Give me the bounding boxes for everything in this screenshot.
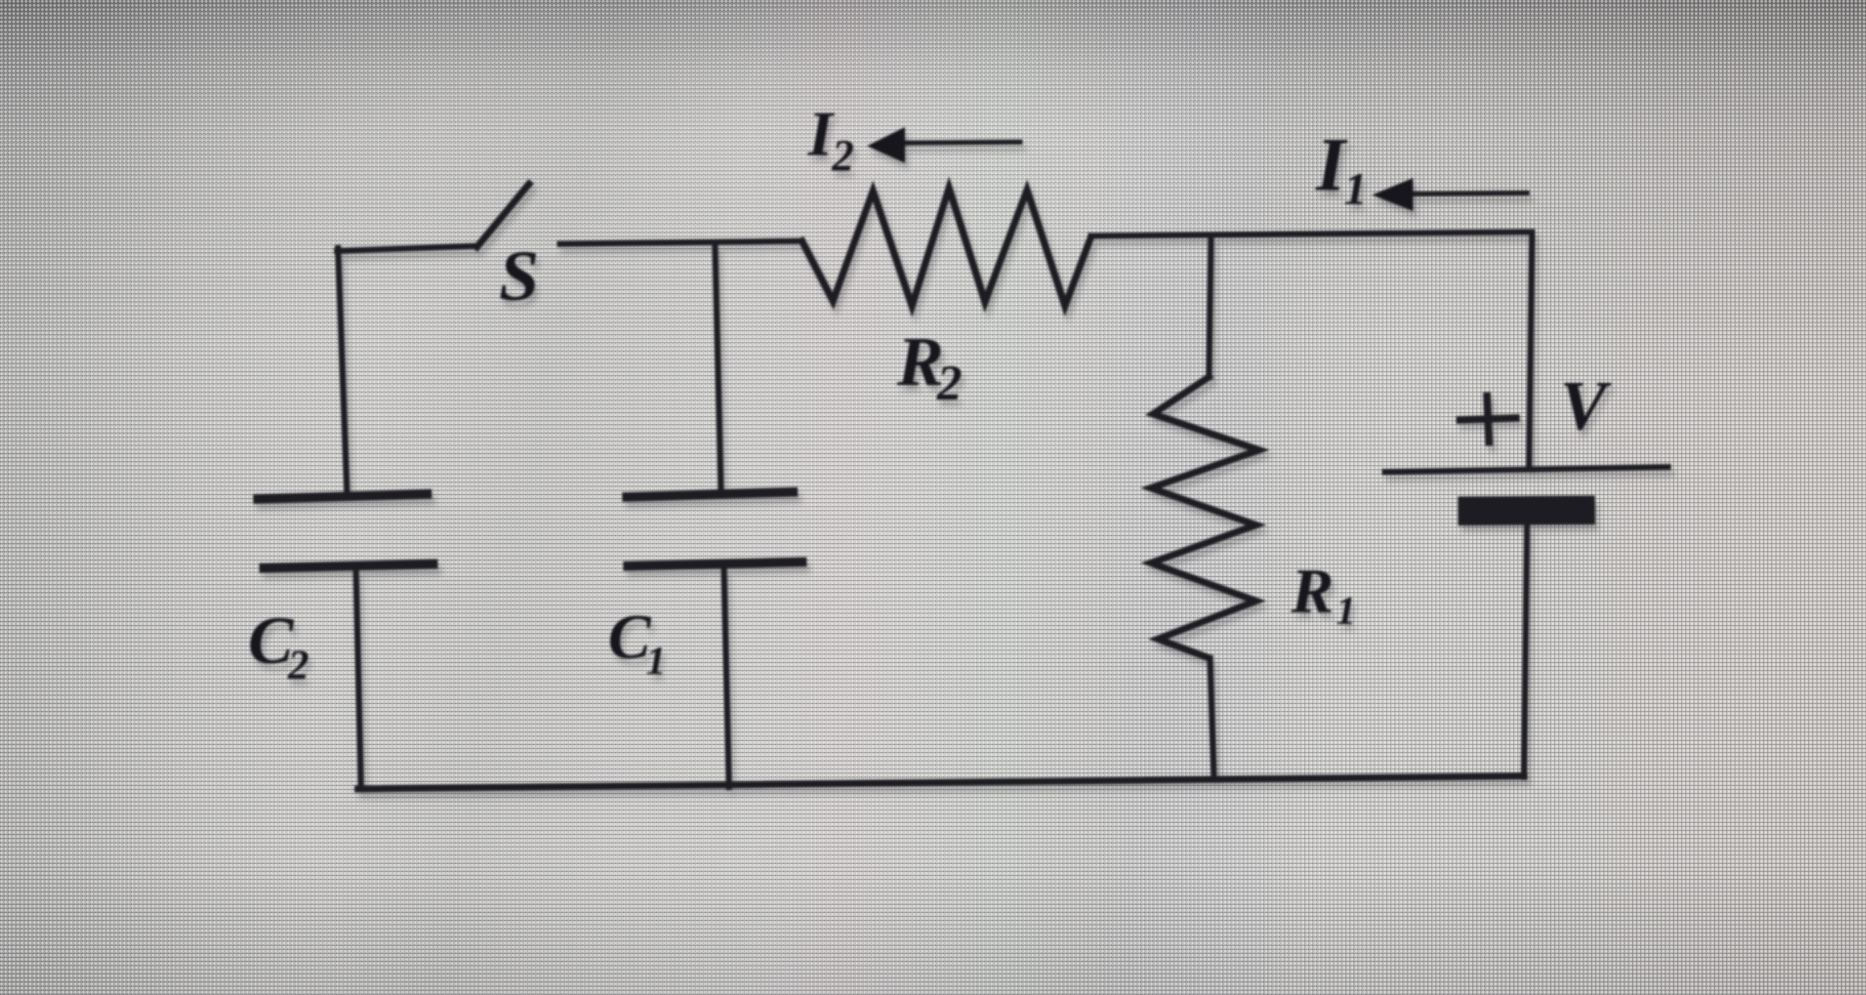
current arrow I1 head bbox=[1372, 178, 1413, 211]
soft photo shadow copy of circuit bbox=[252, 105, 1672, 796]
capacitor C2 bottom plate bbox=[264, 564, 433, 568]
battery V negative plate (short thick) bbox=[1458, 510, 1595, 511]
svg-text:1: 1 bbox=[646, 638, 666, 683]
wire C1 stem upper bbox=[715, 243, 721, 492]
battery plus sign bbox=[1460, 396, 1516, 442]
svg-text:2: 2 bbox=[287, 643, 309, 689]
wire bottom horizontal bbox=[358, 776, 1524, 789]
wire C1 stem lower bbox=[724, 570, 729, 787]
svg-text:V: V bbox=[1560, 368, 1612, 445]
wire R1 stem lower bbox=[1210, 658, 1214, 779]
wire top middle horizontal bbox=[560, 241, 802, 244]
wire top right horizontal bbox=[1091, 232, 1532, 236]
svg-text:I: I bbox=[807, 98, 835, 169]
wire left vertical lower bbox=[356, 572, 361, 789]
current arrow I2 head bbox=[867, 127, 905, 163]
svg-text:1: 1 bbox=[1336, 588, 1356, 633]
capacitor C1 top plate bbox=[627, 492, 793, 497]
current arrow I1 line bbox=[1412, 193, 1527, 194]
svg-text:1: 1 bbox=[1344, 163, 1367, 214]
wire battery stem lower bbox=[1524, 525, 1527, 777]
capacitor C1 bottom plate bbox=[628, 562, 802, 566]
svg-text:2: 2 bbox=[831, 131, 854, 180]
wire battery stem upper bbox=[1529, 233, 1532, 467]
wire top-left horizontal bbox=[337, 246, 477, 251]
wire R1 stem upper bbox=[1209, 235, 1211, 377]
capacitor C2 top plate bbox=[258, 494, 427, 499]
svg-text:R: R bbox=[1290, 555, 1334, 626]
switch S lever bbox=[477, 184, 529, 247]
wire left vertical upper bbox=[338, 248, 347, 493]
svg-text:2: 2 bbox=[936, 354, 962, 410]
resistor R1 zigzag bbox=[1151, 377, 1259, 658]
svg-text:S: S bbox=[499, 236, 539, 316]
battery V positive plate (long) bbox=[1385, 467, 1668, 472]
current arrow I2 line bbox=[903, 142, 1020, 143]
resistor R2 zigzag bbox=[802, 188, 1091, 306]
